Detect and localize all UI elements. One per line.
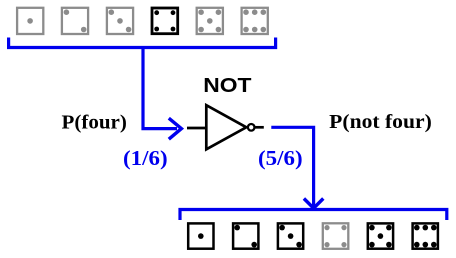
inversion bubble xyxy=(248,124,255,131)
svg-text:P(not four): P(not four) xyxy=(329,111,432,133)
top die 6 (gray) xyxy=(242,8,268,34)
top die 3 (gray) xyxy=(107,8,133,34)
top bracket (blue, groups top dice) xyxy=(9,38,276,48)
top die 2 (gray) xyxy=(62,8,88,34)
svg-text:P(four): P(four) xyxy=(62,111,127,133)
bottom die 4 (gray: excluded four) xyxy=(323,223,349,249)
bottom bracket (blue, groups bottom dice) xyxy=(180,210,447,221)
svg-text:(5/6): (5/6) xyxy=(258,146,303,170)
bottom die 1 (black) xyxy=(188,223,213,248)
op: inverter U1 (NOT gate triangle) xyxy=(206,105,246,149)
bottom die 5 (black) xyxy=(368,223,393,248)
top die 1 (gray) xyxy=(17,8,43,34)
bottom die 2 (black) xyxy=(233,223,258,248)
top die 5 (gray) xyxy=(197,8,223,34)
input wire (black) xyxy=(187,127,206,130)
arrowhead into NOT gate input xyxy=(169,118,182,139)
output wire (black) xyxy=(255,126,263,129)
wire: blue output to bottom bracket xyxy=(271,127,313,204)
svg-text:NOT: NOT xyxy=(203,74,252,97)
wire: blue stem from top bracket to NOT gate input xyxy=(143,48,177,129)
bottom die 6 (black) xyxy=(413,223,438,248)
top die 4 (black: event four) xyxy=(152,8,178,34)
arrowhead into bottom bracket xyxy=(304,199,323,209)
svg-text:(1/6): (1/6) xyxy=(123,146,168,170)
bottom die 3 (black) xyxy=(278,223,303,248)
